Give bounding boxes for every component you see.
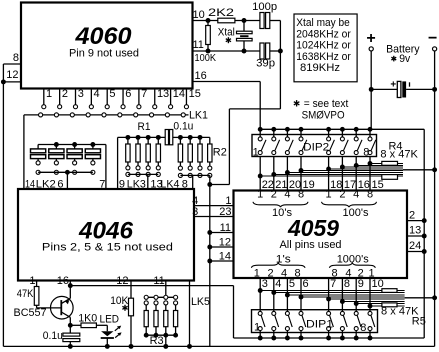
wire LK2 tops to U2 pin 7: [105, 145, 107, 190]
wire 2K2 to 100p: [235, 20, 260, 22]
link header LK1: [43, 89, 45, 105]
svg-text:= see text: = see text: [304, 98, 349, 110]
links LK5 and resistors R3: [144, 301, 148, 305]
svg-text:47K: 47K: [17, 288, 34, 300]
svg-text:8: 8: [363, 147, 369, 159]
ground branch from R2: [209, 175, 211, 346]
svg-text:2: 2: [267, 268, 273, 280]
brace 1000s: [329, 263, 375, 268]
svg-text:16: 16: [57, 275, 69, 287]
DIP1 switches: [259, 310, 261, 312]
svg-text:11: 11: [153, 275, 164, 287]
mode select rail: [423, 129, 425, 338]
R4 common wire: [403, 169, 435, 171]
junction R4 minus rail: [432, 167, 437, 172]
svg-text:2: 2: [339, 189, 345, 201]
DIP2 switches: [259, 129, 261, 137]
svg-text:12: 12: [116, 275, 128, 287]
DIP1 body: [252, 310, 378, 333]
U2 pin 11 wire: [165, 281, 167, 296]
svg-text:100K: 100K: [195, 52, 217, 64]
svg-text:15: 15: [372, 179, 384, 191]
capacitor 100p: [260, 13, 264, 29]
svg-text:Pin 9 not used: Pin 9 not used: [69, 48, 139, 60]
base wire: [37, 307, 62, 309]
svg-text:LED: LED: [100, 314, 120, 326]
svg-text:16: 16: [195, 70, 207, 82]
battery 9v label: [391, 56, 396, 62]
left ground rail: [2, 64, 4, 346]
svg-text:LK5: LK5: [191, 296, 210, 308]
svg-text:1: 1: [254, 268, 260, 280]
wire U2 pin 4 to U3 pin 1: [194, 205, 234, 207]
svg-text:15: 15: [189, 88, 201, 100]
svg-text:1638KHz or: 1638KHz or: [296, 51, 351, 63]
svg-text:LK3: LK3: [127, 179, 146, 191]
svg-text:4060: 4060: [74, 23, 132, 50]
svg-text:5: 5: [109, 88, 115, 100]
resistor 2K2 body: [218, 18, 235, 23]
capacitor 0.1u top: [165, 130, 168, 145]
DIP2 body: [252, 135, 377, 157]
svg-text:8 x 47K: 8 x 47K: [380, 149, 418, 161]
svg-text:6: 6: [303, 278, 309, 290]
svg-text:14: 14: [219, 251, 231, 263]
svg-text:6: 6: [125, 88, 131, 100]
svg-text:11: 11: [193, 39, 204, 51]
IC U3 4059 body: [234, 191, 408, 279]
battery minus rail: [434, 51, 436, 346]
svg-text:LK4: LK4: [160, 179, 179, 191]
resistor 1K0: [70, 324, 81, 326]
svg-text:1K0: 1K0: [78, 312, 97, 324]
collector wire: [69, 317, 71, 325]
svg-text:8: 8: [295, 268, 301, 280]
svg-text:R3: R3: [150, 335, 164, 347]
junction pin12/rail: [1, 79, 6, 84]
svg-text:1: 1: [254, 322, 260, 334]
junction collector: [68, 323, 73, 328]
svg-text:8: 8: [360, 322, 366, 334]
IC U2 4046 body: [18, 189, 194, 281]
asterisk xtal: [226, 37, 231, 43]
U3 pin 11 wire: [210, 232, 234, 234]
wire LK4 to U2 pin 8: [192, 175, 194, 189]
DIP switch DIP2 supply bus: [260, 128, 424, 130]
svg-text:2K2: 2K2: [208, 7, 234, 19]
wire LK3 to U2 pin 13: [147, 174, 149, 189]
crystal note box: [294, 14, 357, 82]
U3 pin 2 wire: [407, 220, 424, 222]
capacitor 0.1u bottom: [69, 325, 71, 333]
LK2 junction to pin 6: [65, 170, 70, 175]
svg-text:4: 4: [94, 88, 100, 100]
svg-text:1024KHz or: 1024KHz or: [296, 40, 351, 52]
svg-text:DIP2: DIP2: [303, 141, 329, 153]
svg-text:Pins 2, 5 & 15 not used: Pins 2, 5 & 15 not used: [42, 242, 173, 254]
svg-text:13: 13: [409, 225, 421, 237]
svg-text:100's: 100's: [343, 207, 370, 219]
svg-text:0.1u: 0.1u: [173, 120, 193, 132]
capacitor 39p: [260, 43, 264, 59]
svg-text:6: 6: [57, 179, 63, 191]
svg-text:Xtal: Xtal: [218, 27, 235, 39]
svg-text:2: 2: [271, 189, 277, 201]
svg-text:8: 8: [344, 278, 350, 290]
svg-text:14: 14: [25, 179, 35, 191]
unlabeled U2 pin wire: [189, 281, 191, 347]
junction LED ground: [105, 344, 110, 349]
svg-text:1: 1: [29, 275, 35, 287]
caps ground wire: [279, 21, 281, 109]
svg-text:3: 3: [78, 88, 84, 100]
svg-text:5: 5: [289, 278, 295, 290]
brace 1s: [251, 263, 305, 268]
svg-text:9v: 9v: [399, 53, 410, 65]
svg-text:14: 14: [173, 88, 185, 100]
svg-text:4046: 4046: [78, 218, 134, 245]
svg-text:39p: 39p: [256, 58, 275, 70]
svg-text:8: 8: [182, 179, 188, 191]
resistor group LK4 bus: [180, 136, 209, 138]
see text note: [294, 100, 300, 106]
resistors LK4 and R2: [178, 135, 183, 140]
svg-text:DIP1: DIP1: [306, 319, 333, 331]
resistor 47K: [34, 287, 39, 306]
svg-text:4: 4: [281, 268, 287, 280]
svg-text:SMØVPO: SMØVPO: [302, 110, 345, 122]
resistors R1 with links LK3: [125, 135, 130, 140]
svg-text:1: 1: [326, 189, 332, 201]
svg-text:All pins used: All pins used: [280, 239, 342, 251]
resistor 100K: [207, 21, 209, 26]
U2 pin 1 wire: [36, 281, 38, 287]
junction cap ground: [68, 344, 73, 349]
wire LK1 to U2 pin 14: [23, 115, 25, 189]
svg-text:100p: 100p: [252, 1, 277, 13]
IC U1 4060 body: [21, 3, 193, 89]
U3 pin 24 wire: [407, 251, 424, 253]
junction unlabeled ground: [187, 344, 192, 349]
svg-text:Xtal may be: Xtal may be: [296, 17, 350, 29]
svg-text:0.1u: 0.1u: [43, 330, 63, 342]
svg-text:3: 3: [262, 278, 268, 290]
svg-text:LK2: LK2: [36, 179, 56, 191]
U3 pin 14 wire: [210, 260, 234, 262]
U2 pin 16 supply wire: [70, 285, 233, 287]
svg-text:10's: 10's: [272, 207, 292, 219]
resistor 10K: [129, 298, 134, 316]
svg-text:11: 11: [220, 222, 231, 234]
svg-text:2: 2: [409, 209, 415, 221]
svg-text:8: 8: [13, 52, 19, 64]
U1 pin 11 wire: [193, 50, 260, 52]
battery plus wire: [370, 51, 372, 129]
svg-text:9: 9: [358, 278, 364, 290]
svg-text:8: 8: [298, 189, 304, 201]
LED D1: [106, 325, 108, 331]
svg-text:7: 7: [99, 179, 105, 191]
svg-text:10K: 10K: [110, 295, 129, 307]
U1 pin 10 wire: [193, 20, 218, 22]
svg-text:R1: R1: [138, 121, 151, 133]
svg-text:12: 12: [6, 69, 18, 81]
asterisk 10K: [122, 305, 127, 311]
junction xtal top: [242, 18, 247, 23]
U1 pin 8 wire: [3, 63, 21, 65]
svg-text:8: 8: [367, 189, 373, 201]
svg-text:4: 4: [275, 278, 281, 290]
junction 100K bottom: [206, 49, 211, 54]
R4 package: [382, 161, 398, 165]
svg-text:7: 7: [330, 278, 336, 290]
battery cell B1: [371, 88, 397, 90]
svg-text:R5: R5: [412, 316, 426, 328]
junction xtal bottom: [242, 49, 247, 54]
U1 Vdd feed wire: [259, 82, 261, 130]
junction R5 minus rail: [432, 295, 437, 300]
junction 10K ground: [129, 344, 134, 349]
wire U2 pin 3 to U3 pin 23: [194, 216, 234, 218]
U2 pin 12 wire: [130, 281, 132, 299]
svg-text:12: 12: [219, 237, 231, 249]
emitter wire to U2 pin 16: [69, 281, 71, 299]
svg-text:+: +: [390, 80, 396, 91]
svg-text:4: 4: [284, 189, 290, 201]
LED arrows: [115, 327, 119, 330]
svg-text:819KHz: 819KHz: [300, 62, 340, 74]
U1 pin 12 wire: [3, 81, 21, 83]
svg-text:1: 1: [253, 146, 259, 158]
junction pin16: [68, 283, 73, 288]
svg-text:24: 24: [409, 240, 421, 252]
svg-text:4059: 4059: [287, 215, 339, 241]
svg-text:−: −: [428, 30, 437, 47]
brace 100s: [322, 202, 377, 207]
resistor network R1 bus: [118, 136, 166, 138]
crystal X1: [243, 21, 245, 32]
svg-text:1: 1: [257, 189, 263, 201]
svg-text:+: +: [366, 30, 375, 47]
link group LK2: [38, 144, 106, 146]
svg-text:7: 7: [141, 88, 147, 100]
U3 pin 12 wire: [210, 246, 234, 248]
wire R3 to ground: [165, 335, 167, 346]
wire bus to U2 pin 9: [117, 137, 119, 189]
svg-text:19: 19: [303, 179, 315, 191]
svg-text:2: 2: [62, 88, 68, 100]
link group LK5 top row: [146, 296, 175, 298]
svg-text:13: 13: [157, 88, 169, 100]
resistor network R5 wires: [259, 279, 261, 310]
svg-text:4: 4: [353, 189, 359, 201]
svg-text:2048KHz or: 2048KHz or: [296, 28, 351, 40]
node A junction: [206, 18, 211, 23]
svg-text:1: 1: [46, 88, 52, 100]
svg-text:BC557: BC557: [14, 307, 47, 319]
svg-text:R2: R2: [213, 146, 227, 158]
U3 pin 13 wire: [407, 235, 424, 237]
R5 package: [382, 289, 397, 293]
brace 10s: [253, 202, 308, 207]
wire LK2 to U2 pin 6: [66, 172, 68, 189]
svg-text:3: 3: [192, 206, 198, 218]
R5 common wire: [405, 297, 435, 299]
svg-text:10: 10: [193, 9, 205, 21]
svg-text:9: 9: [119, 179, 125, 191]
resistor network R4 wires: [259, 157, 261, 191]
ground bus: [3, 345, 434, 347]
U1 pin 16 wire: [193, 81, 261, 83]
junction R3 ground: [163, 344, 168, 349]
transistor Q1 BC557: [51, 296, 74, 319]
junction caps right: [278, 49, 283, 54]
svg-text:23: 23: [219, 206, 231, 218]
